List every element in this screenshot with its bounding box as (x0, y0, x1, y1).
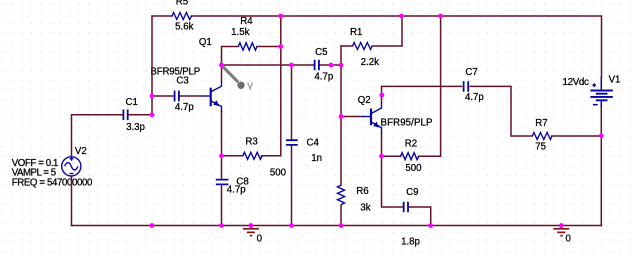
svg-text:5.6k: 5.6k (175, 22, 193, 33)
svg-text:1.8p: 1.8p (401, 237, 420, 248)
svg-text:R6: R6 (356, 186, 368, 197)
svg-text:1n: 1n (311, 153, 322, 164)
svg-text:R1: R1 (350, 27, 362, 38)
svg-text:1.5k: 1.5k (231, 27, 249, 38)
svg-text:Q1: Q1 (199, 37, 212, 48)
svg-text:500: 500 (270, 168, 287, 179)
svg-text:4.7p: 4.7p (175, 102, 194, 113)
svg-text:R2: R2 (405, 138, 417, 149)
svg-text:3.3p: 3.3p (126, 122, 145, 133)
svg-text:4.7p: 4.7p (314, 72, 333, 83)
svg-text:C1: C1 (126, 97, 138, 108)
svg-text:C7: C7 (465, 67, 477, 78)
svg-text:500: 500 (405, 163, 422, 174)
svg-text:0: 0 (257, 234, 263, 245)
svg-text:4.7p: 4.7p (227, 184, 246, 195)
svg-text:C3: C3 (176, 76, 188, 87)
svg-text:12Vdc: 12Vdc (563, 77, 590, 88)
svg-text:C9: C9 (406, 187, 418, 198)
svg-text:R5: R5 (176, 0, 188, 8)
svg-text:FREQ = 547000000: FREQ = 547000000 (12, 177, 93, 188)
svg-text:0: 0 (566, 234, 572, 245)
svg-text:C5: C5 (315, 47, 327, 58)
svg-text:BFR95/PLP: BFR95/PLP (381, 118, 433, 129)
svg-text:V2: V2 (75, 146, 87, 157)
svg-text:R4: R4 (240, 16, 253, 27)
svg-text:C4: C4 (307, 138, 320, 149)
svg-text:R7: R7 (535, 118, 547, 129)
svg-text:V1: V1 (609, 75, 621, 86)
svg-text:75: 75 (535, 141, 546, 152)
svg-text:2.2k: 2.2k (361, 57, 379, 68)
svg-text:BFR95/PLP: BFR95/PLP (150, 67, 200, 78)
svg-text:Q2: Q2 (358, 95, 371, 106)
svg-text:R3: R3 (245, 137, 257, 148)
svg-text:3k: 3k (360, 203, 370, 214)
svg-text:4.7p: 4.7p (465, 92, 484, 103)
